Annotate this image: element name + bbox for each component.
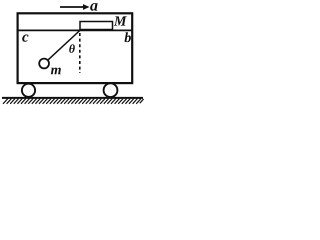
pendulum bob m <box>39 59 49 69</box>
label M <box>114 16 127 25</box>
label m <box>51 68 61 75</box>
vertical dashed reference line <box>79 33 81 73</box>
label theta <box>69 44 75 53</box>
label b <box>124 32 130 42</box>
ground line <box>2 97 143 99</box>
shelf <box>17 29 133 31</box>
left wheel <box>22 84 35 97</box>
acceleration arrow <box>60 4 90 10</box>
label c <box>22 35 28 42</box>
right wheel <box>104 83 118 97</box>
block M <box>80 22 113 30</box>
cart body <box>18 13 133 83</box>
pendulum string <box>48 31 80 61</box>
ground hatching <box>3 99 144 104</box>
label a <box>90 3 97 11</box>
